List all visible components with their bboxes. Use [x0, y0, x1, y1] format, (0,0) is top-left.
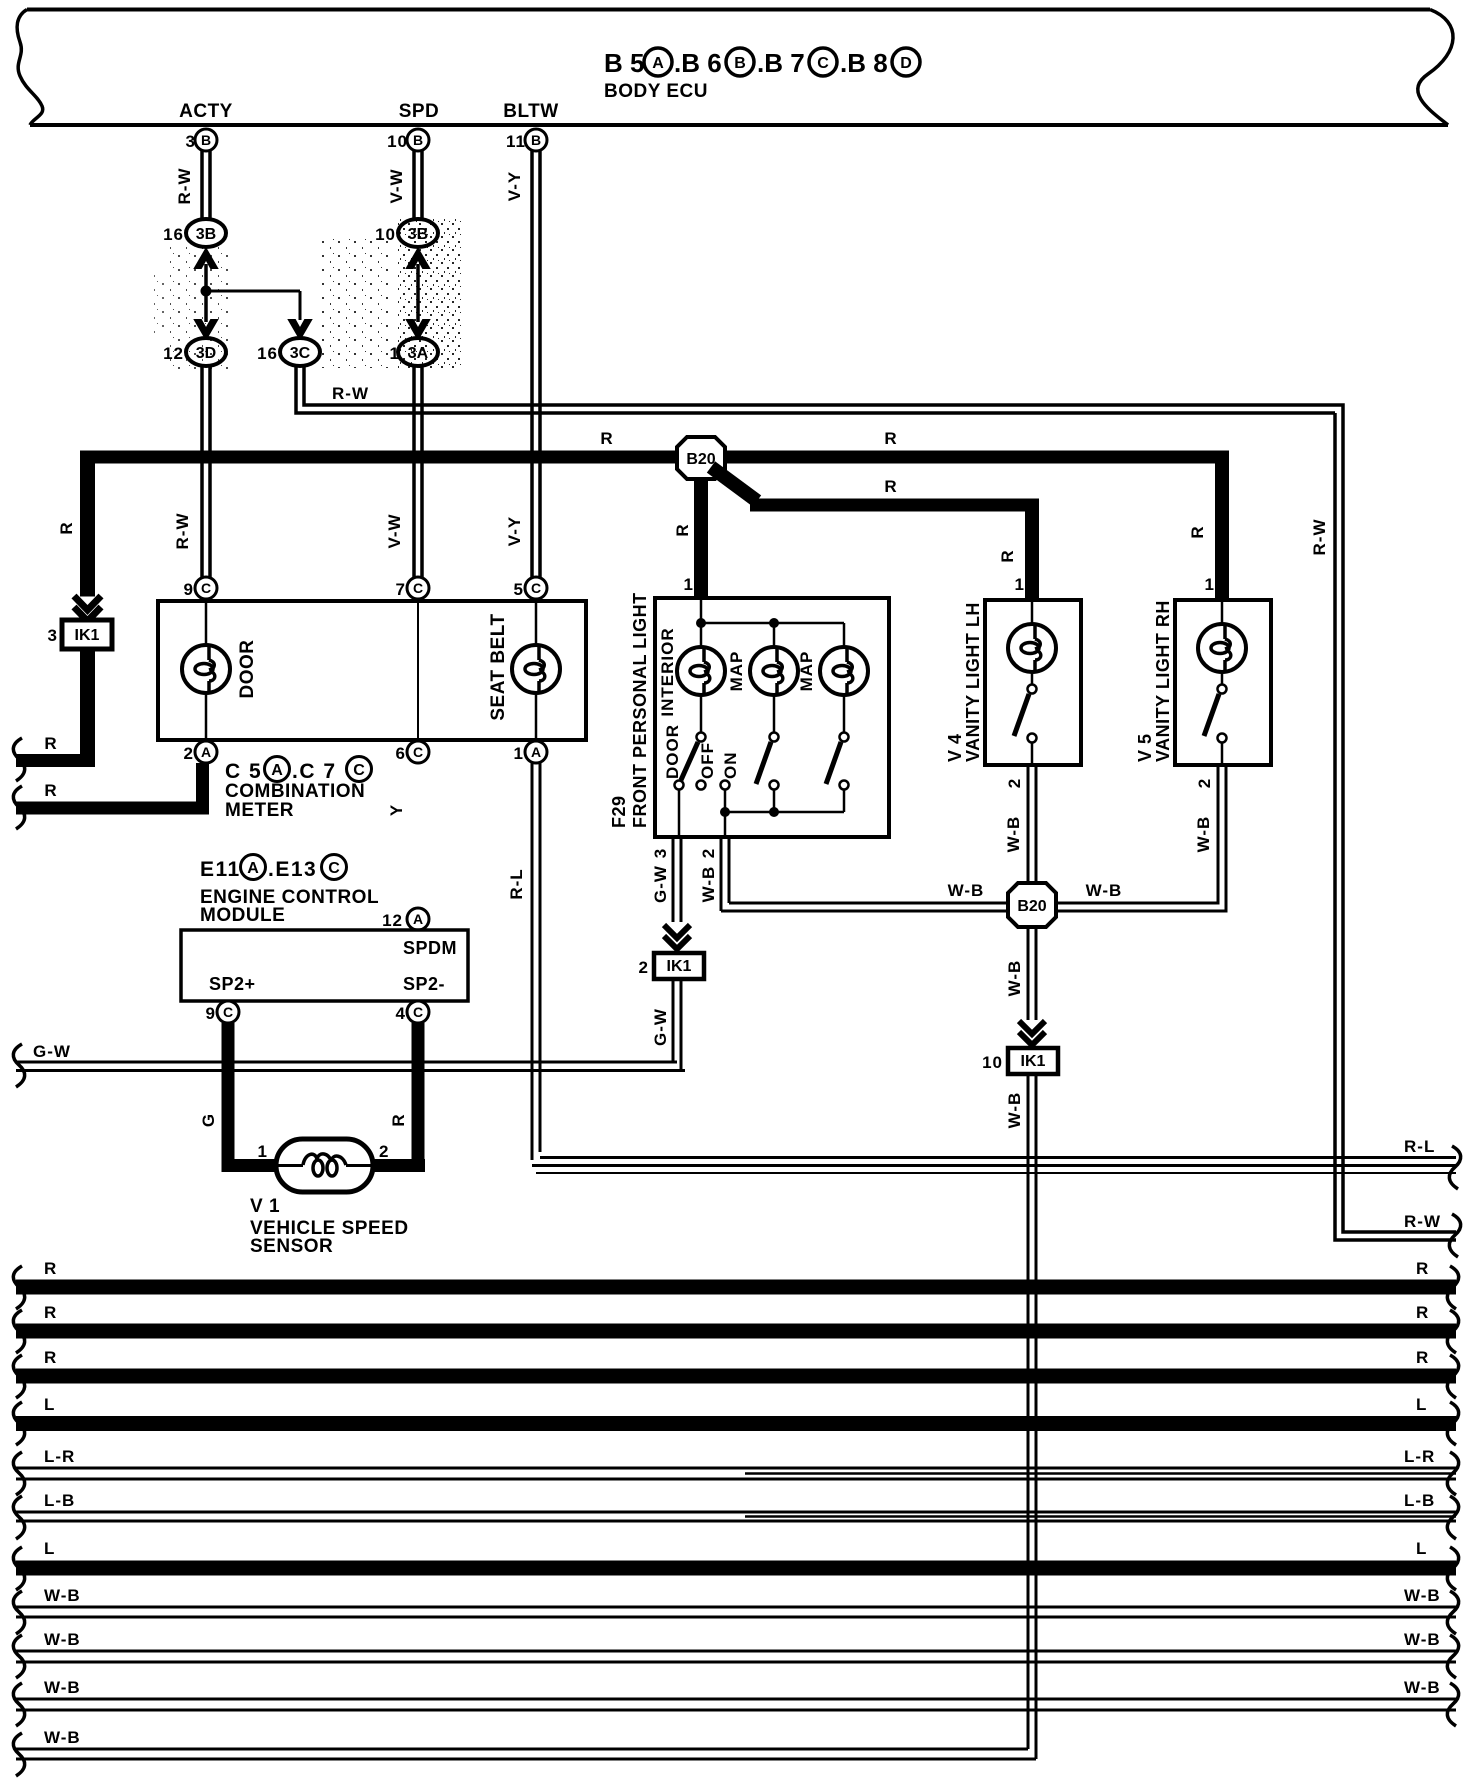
V4 vanity light LH box — [985, 600, 1081, 765]
svg-text:W-B: W-B — [1404, 1630, 1441, 1649]
bottom bus row 3 wire R — [13, 1348, 1458, 1398]
svg-text:Y: Y — [387, 804, 406, 816]
svg-text:R: R — [44, 1348, 57, 1367]
svg-text:L: L — [44, 1395, 55, 1414]
svg-text:C: C — [413, 744, 423, 760]
svg-text:A: A — [201, 744, 211, 760]
svg-text:R: R — [44, 781, 57, 800]
svg-text:C: C — [328, 860, 340, 877]
svg-text:C: C — [413, 580, 423, 596]
scan noise patch center — [322, 238, 392, 368]
V4 switch — [1014, 672, 1037, 765]
V5 switch — [1204, 672, 1227, 765]
terminal 5(C) combination meter — [514, 577, 547, 599]
wire W-B horizontal from F29-2 to B20 — [721, 881, 1010, 911]
svg-text:R-W: R-W — [1310, 519, 1329, 556]
svg-text:9: 9 — [206, 1004, 216, 1023]
svg-text:2: 2 — [184, 744, 194, 763]
svg-text:R-W: R-W — [175, 168, 194, 205]
bottom bus row 8 wire W-B — [13, 1586, 1458, 1634]
svg-text:5: 5 — [514, 580, 524, 599]
SEAT BELT lamp wires — [535, 601, 538, 740]
svg-text:.B 6: .B 6 — [674, 48, 722, 78]
left squiggle for R stub — [13, 738, 24, 781]
svg-text:W-B: W-B — [1005, 960, 1024, 997]
SEAT BELT lamp — [512, 645, 560, 693]
connector 1(3A) — [390, 338, 438, 366]
F29 bottom rail — [720, 790, 844, 837]
vehicle speed sensor body — [258, 1139, 390, 1192]
svg-text:V-W: V-W — [385, 513, 404, 548]
svg-text:L: L — [44, 1539, 55, 1558]
bottom bus row 4 wire L — [13, 1395, 1458, 1445]
down arrow into 1(3A) — [407, 320, 429, 339]
switch 1 (DOOR/OFF/ON selector) — [675, 695, 730, 790]
svg-text:R: R — [44, 1303, 57, 1322]
bottom bus row 11 wire W-B joining vertical W-B — [13, 1728, 1036, 1776]
svg-text:R: R — [884, 477, 897, 496]
svg-text:L-R: L-R — [44, 1447, 75, 1466]
thick bus left vertical to 3 IK1 — [57, 451, 95, 597]
terminal 3(B) ACTY — [186, 129, 217, 151]
thick wire R from 2(A) to left edge — [16, 763, 209, 815]
bottom bus row 7 wire L — [13, 1539, 1458, 1590]
svg-text:BODY ECU: BODY ECU — [604, 81, 708, 102]
ECU connector id text B 5(A),B 6(B),B 7(C),B 8(D) — [604, 48, 920, 78]
svg-text:R: R — [1416, 1303, 1429, 1322]
MAP lamp 2 — [820, 647, 868, 695]
svg-text:R: R — [44, 734, 57, 753]
bottom bus row 6 wire L-B — [13, 1491, 1458, 1539]
V4 terminal 2 W-B wire down to B20 — [1004, 765, 1036, 884]
svg-text:16: 16 — [257, 344, 278, 363]
svg-text:ACTY: ACTY — [179, 101, 233, 122]
bottom bus row 1 wire R — [13, 1259, 1458, 1309]
wire R-W from 3(B) to 16(3B) — [175, 151, 210, 220]
terminal 6(C) meter bottom — [396, 741, 429, 763]
svg-text:7: 7 — [396, 580, 406, 599]
wire G-W below 2 IK1 turning left — [651, 979, 681, 1071]
double chevron arrow into 10 IK1 — [1019, 1021, 1045, 1045]
svg-text:E11: E11 — [200, 858, 241, 881]
engine control module box — [181, 930, 468, 1001]
svg-text:C: C — [413, 1004, 423, 1020]
terminal 2 W-B wire below F29 — [699, 837, 729, 911]
svg-text:C: C — [223, 1004, 233, 1020]
svg-text:R-W: R-W — [332, 384, 369, 403]
terminal 12(A) ECM top — [382, 908, 429, 930]
svg-text:C 5: C 5 — [225, 760, 262, 783]
COMBINATION METER label — [225, 781, 365, 821]
bottom bus row 2 wire R — [13, 1303, 1458, 1353]
svg-text:2: 2 — [699, 848, 718, 858]
V 5 VANITY LIGHT RH label — [1135, 600, 1173, 762]
connector 10 IK1 — [982, 1048, 1058, 1074]
svg-text:DOOR: DOOR — [663, 724, 682, 779]
wire W-B below B20 — [1005, 927, 1036, 1020]
svg-text:COMBINATION: COMBINATION — [225, 781, 365, 802]
svg-text:.E13: .E13 — [268, 858, 317, 881]
svg-text:B: B — [734, 55, 746, 72]
svg-text:MAP: MAP — [727, 651, 746, 692]
svg-text:2: 2 — [379, 1142, 389, 1161]
svg-text:2: 2 — [639, 958, 649, 977]
svg-text:A: A — [531, 744, 541, 760]
svg-text:1: 1 — [1015, 575, 1025, 594]
connector 12(3D) — [163, 338, 226, 366]
svg-text:V 4: V 4 — [945, 733, 965, 762]
svg-text:METER: METER — [225, 800, 294, 821]
svg-text:R: R — [1188, 525, 1207, 538]
terminal 3 G-W wire below F29 — [651, 837, 681, 922]
wire R-W from 12(3D) to 9(C) — [173, 366, 210, 578]
svg-text:V-W: V-W — [387, 168, 406, 203]
R-L exit squiggle right — [1449, 1146, 1460, 1189]
scan noise patch right of 3A — [398, 218, 462, 368]
svg-text:SP2+: SP2+ — [209, 974, 256, 994]
svg-text:R-W: R-W — [173, 513, 192, 550]
V 1 VEHICLE SPEED SENSOR label — [250, 1196, 409, 1257]
svg-text:10: 10 — [982, 1053, 1003, 1072]
MAP lamp 1 — [750, 647, 798, 695]
svg-text:B 5: B 5 — [604, 48, 644, 78]
svg-text:W-B: W-B — [44, 1678, 81, 1697]
svg-text:IK1: IK1 — [1021, 1053, 1046, 1070]
svg-text:W-B: W-B — [1004, 816, 1023, 853]
F29 FRONT PERSONAL LIGHT label — [609, 592, 650, 828]
svg-text:IK1: IK1 — [75, 627, 100, 644]
svg-text:9: 9 — [184, 580, 194, 599]
svg-text:R: R — [1416, 1259, 1429, 1278]
terminal 10(B) SPD — [387, 129, 429, 151]
scan noise patch left — [170, 244, 228, 372]
svg-text:16: 16 — [163, 225, 184, 244]
svg-text:W-B: W-B — [1194, 816, 1213, 853]
wire V-W from 10(B) to 10(3B) — [387, 151, 422, 220]
svg-text:12: 12 — [382, 911, 403, 930]
F29 front personal light box — [655, 598, 889, 837]
bottom bus row 10 wire W-B — [13, 1678, 1458, 1726]
connector 3 IK1 — [48, 620, 112, 649]
wire R-L from 1(A) down — [507, 763, 540, 1160]
svg-text:G-W: G-W — [33, 1042, 71, 1061]
svg-text:3: 3 — [651, 848, 670, 858]
bottom bus row 9 wire W-B — [13, 1630, 1458, 1678]
branch wire from junction to 16(3C) — [206, 291, 300, 320]
svg-text:R: R — [1416, 1348, 1429, 1367]
svg-text:MAP: MAP — [797, 651, 816, 692]
svg-text:3B: 3B — [196, 226, 216, 243]
svg-text:3C: 3C — [290, 345, 311, 362]
svg-text:MODULE: MODULE — [200, 905, 285, 926]
svg-text:R-L: R-L — [507, 868, 526, 899]
double chevron arrow into 2 IK1 — [664, 925, 690, 949]
svg-text:L-B: L-B — [1404, 1491, 1435, 1510]
svg-text:R: R — [57, 521, 76, 534]
meter id text C 5(A),C 7(C) — [225, 757, 372, 784]
svg-text:L-B: L-B — [44, 1491, 75, 1510]
ECU band outline (BODY ECU block) — [17, 10, 1453, 126]
svg-text:W-B: W-B — [1005, 1092, 1024, 1129]
svg-text:R-W: R-W — [1404, 1212, 1441, 1231]
up arrow into 3B — [195, 249, 217, 268]
bottom bus row 5 wire L-R — [13, 1447, 1458, 1495]
svg-text:C: C — [201, 580, 211, 596]
terminal 9(C) combination meter — [184, 577, 217, 599]
svg-text:W-B: W-B — [1086, 881, 1123, 900]
terminal 2(A) meter bottom — [184, 741, 217, 763]
svg-text:V-Y: V-Y — [505, 516, 524, 546]
left squiggle for meter R stub — [13, 786, 24, 829]
F29 internal top rail with junctions — [696, 598, 844, 647]
svg-text:.B 8: .B 8 — [840, 48, 888, 78]
svg-text:2: 2 — [1005, 778, 1024, 788]
switch 3 — [826, 695, 849, 790]
connector 10(3B) — [375, 219, 438, 247]
svg-text:11: 11 — [506, 132, 526, 151]
V4 lamp — [1008, 600, 1056, 672]
svg-text:C: C — [531, 580, 541, 596]
terminal 9(C) ECM bottom — [206, 1001, 239, 1023]
svg-text:R: R — [389, 1113, 408, 1126]
thick wire R from 4(C) to VSS pin 2 — [373, 1023, 425, 1172]
terminal 1(A) meter bottom — [514, 741, 547, 763]
svg-text:A: A — [247, 860, 259, 877]
thick wire B20 down to F29 terminal 1 — [673, 479, 708, 600]
svg-text:SEAT BELT: SEAT BELT — [488, 613, 509, 720]
svg-text:2: 2 — [1195, 778, 1214, 788]
svg-text:SP2-: SP2- — [403, 974, 445, 994]
svg-text:W-B: W-B — [1404, 1678, 1441, 1697]
svg-text:IK1: IK1 — [667, 958, 692, 975]
svg-text:FRONT PERSONAL LIGHT: FRONT PERSONAL LIGHT — [630, 592, 650, 828]
svg-text:1: 1 — [258, 1142, 268, 1161]
svg-text:W-B: W-B — [44, 1586, 81, 1605]
svg-text:ON: ON — [721, 752, 740, 780]
connector 16(3C) — [257, 338, 320, 366]
svg-text:INTERIOR: INTERIOR — [658, 627, 677, 716]
wire R below 3 IK1 to left edge — [16, 649, 95, 767]
V5 terminal 2 W-B wire down then left to B20 — [1054, 765, 1226, 911]
svg-text:G-W: G-W — [651, 1008, 670, 1046]
thick bus right corner down to V5 terminal 1 — [1188, 451, 1229, 601]
R-W exit squiggle right — [1449, 1214, 1460, 1257]
svg-text:R: R — [600, 429, 613, 448]
connector 2 IK1 — [639, 953, 704, 979]
svg-text:B: B — [413, 132, 423, 148]
svg-text:SPD: SPD — [399, 101, 440, 122]
svg-text:W-B: W-B — [44, 1630, 81, 1649]
down arrow into 12(3D) — [195, 320, 217, 339]
B20 splice octagon (top) — [677, 437, 725, 479]
terminal 7(C) combination meter — [396, 577, 429, 599]
wire segment — [416, 264, 420, 322]
wire segment with junction — [201, 264, 212, 322]
thick bus R horizontal (main) — [81, 429, 1229, 464]
svg-text:W-B: W-B — [1404, 1586, 1441, 1605]
VSS coil symbol — [278, 1154, 371, 1176]
svg-text:R: R — [998, 549, 1017, 562]
svg-text:L-R: L-R — [1404, 1447, 1435, 1466]
svg-text:W-B: W-B — [44, 1728, 81, 1747]
down arrow into 16(3C) — [289, 320, 311, 339]
svg-text:R: R — [673, 523, 692, 536]
meter internal divider — [417, 601, 419, 740]
thick wire G from 9(C) to VSS pin 1 — [199, 1023, 278, 1172]
svg-text:R: R — [884, 429, 897, 448]
wire G-W horizontal from left edge — [16, 1042, 685, 1071]
svg-text:VANITY LIGHT RH: VANITY LIGHT RH — [1153, 600, 1173, 762]
left squiggle for G-W — [13, 1044, 24, 1087]
svg-text:A: A — [652, 55, 664, 72]
svg-text:1: 1 — [514, 744, 524, 763]
svg-text:3: 3 — [48, 626, 58, 645]
switch 2 — [756, 695, 779, 790]
INTERIOR lamp — [677, 647, 725, 695]
svg-text:W-B: W-B — [699, 866, 718, 903]
svg-text:1: 1 — [684, 575, 694, 594]
svg-text:10: 10 — [387, 132, 408, 151]
svg-text:D: D — [900, 55, 912, 72]
B20 splice octagon (lower) — [1008, 883, 1056, 927]
svg-text:SENSOR: SENSOR — [250, 1236, 333, 1257]
svg-text:DOOR: DOOR — [237, 640, 258, 699]
V 4 VANITY LIGHT LH label — [945, 602, 983, 762]
svg-text:V 5: V 5 — [1135, 733, 1155, 762]
connector 16(3B) — [163, 219, 226, 247]
svg-text:1: 1 — [1205, 575, 1215, 594]
svg-text:B: B — [201, 132, 211, 148]
ECM id text E11(A),E13(C) — [200, 855, 347, 882]
wire V-W from 1(3A) to 7(C) — [385, 366, 422, 578]
svg-text:.B 7: .B 7 — [757, 48, 805, 78]
scan noise patch far left small — [148, 272, 170, 334]
wire W-B below 10 IK1 down page — [1005, 1074, 1036, 1759]
svg-text:R-L: R-L — [1404, 1137, 1435, 1156]
svg-text:V-Y: V-Y — [505, 171, 524, 201]
svg-text:OFF: OFF — [698, 742, 717, 779]
svg-text:SPDM: SPDM — [403, 938, 457, 958]
wire R-L horizontal to right edge — [532, 1137, 1456, 1173]
svg-text:R: R — [44, 1259, 57, 1278]
svg-text:A: A — [271, 762, 283, 779]
svg-text:L: L — [1416, 1395, 1427, 1414]
svg-text:B: B — [531, 132, 541, 148]
svg-text:VANITY LIGHT LH: VANITY LIGHT LH — [963, 602, 983, 762]
wire R-W vertical right side down — [1310, 405, 1456, 1240]
DOOR lamp wires — [205, 601, 208, 740]
svg-text:.C 7: .C 7 — [292, 760, 337, 783]
terminal 11(B) BLTW — [506, 129, 547, 151]
up arrow below 10(3B) — [407, 249, 429, 268]
double chevron arrow into 3 IK1 — [74, 596, 101, 621]
svg-text:G-W: G-W — [651, 865, 670, 903]
wire V-Y from 11(B) to 5(C) — [505, 151, 540, 578]
svg-text:C: C — [353, 762, 365, 779]
svg-text:BLTW: BLTW — [503, 101, 558, 122]
V5 lamp — [1198, 600, 1246, 672]
terminal 4(C) ECM bottom — [396, 1001, 429, 1023]
wire from DOOR contact to terminal 3 — [678, 790, 681, 837]
svg-text:4: 4 — [396, 1004, 406, 1023]
svg-text:B20: B20 — [1017, 898, 1046, 915]
ENGINE CONTROL MODULE label — [200, 887, 379, 926]
svg-text:A: A — [413, 911, 423, 927]
svg-text:6: 6 — [396, 744, 406, 763]
DOOR lamp — [182, 645, 230, 693]
svg-text:B20: B20 — [686, 451, 715, 468]
wire R-W from 16(3C) going right across page — [296, 366, 1335, 413]
svg-text:G: G — [199, 1113, 218, 1127]
svg-text:V 1: V 1 — [250, 1196, 280, 1217]
V5 vanity light RH box — [1175, 600, 1271, 765]
svg-text:C: C — [817, 55, 829, 72]
thick branch R from B20 diagonal to V4 — [711, 467, 1039, 600]
svg-text:F29: F29 — [609, 795, 629, 828]
combination meter box — [158, 601, 586, 740]
svg-text:W-B: W-B — [948, 881, 985, 900]
svg-text:L: L — [1416, 1539, 1427, 1558]
